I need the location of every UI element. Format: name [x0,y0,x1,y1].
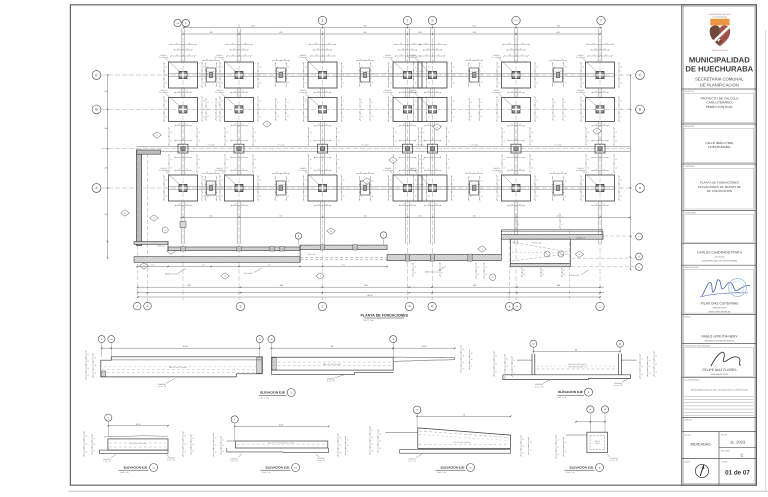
footing C2 [225,62,254,88]
svg-text:MURO H.A.: MURO H.A. [570,274,580,277]
small footing M4 [403,144,413,153]
title block outer box [682,5,757,485]
elevation b bubbles [587,406,594,413]
bubble row C right [636,71,645,80]
eje1B tail wedge [393,357,455,361]
elevation eje1 A bubbles [98,336,105,343]
svg-text:LAMINA: LAMINA [721,460,728,463]
svg-text:Z-1 120x120: Z-1 120x120 [383,91,393,94]
title block divider 9 [682,377,757,379]
grid axis vertical 3 [322,24,324,300]
footing C6 [502,62,531,88]
svg-text:Z-1 120x120: Z-1 120x120 [215,169,225,172]
svg-text:870: 870 [342,264,345,267]
svg-text:10.35: 10.35 [136,423,141,426]
wall pilaster [237,247,241,251]
column strip axis 5 [430,29,432,63]
bubble wall d right [636,253,643,260]
dashed leaders to right bubbles [604,235,635,237]
svg-text:ESC 1 : 50: ESC 1 : 50 [260,397,269,400]
svg-text:Z-1 120x120: Z-1 120x120 [215,91,225,94]
svg-text:INDICADAS: INDICADAS [690,443,711,447]
svg-text:MURO h=t m.h.a.: MURO h=t m.h.a. [425,271,440,274]
svg-text:ESC 1 : 50: ESC 1 : 50 [558,396,567,399]
bottom footing band left (hatched) [134,257,300,263]
small footing M3 [318,144,328,153]
beam row A [168,185,614,187]
svg-text:310: 310 [151,264,154,267]
footing A4 [393,175,422,201]
row gap tick clusters [303,63,305,87]
top mini dim cluster [503,44,529,46]
plan bottom dim chain 3 (overall) [138,296,600,298]
e2 clusters [213,434,215,456]
e2 ground line left [227,440,236,442]
bubble axis 1a top [174,19,181,26]
wall marker diamond 6 [121,210,130,216]
small footing row C intermediate [276,68,285,82]
column strip axis 3 [320,29,322,63]
column strip axis 7 [597,29,599,63]
grid axis vertical 2 [238,24,240,300]
svg-text:RELLENO COMP. 2.5: RELLENO COMP. 2.5 [569,366,587,369]
elevation 7a bubble [413,406,421,414]
svg-text:V.F. 20/40: V.F. 20/40 [470,144,478,147]
svg-text:10: 10 [463,413,465,416]
footing B7 [586,97,615,121]
svg-text:ELEVACION EJE: ELEVACION EJE [266,466,290,470]
7a base plate [400,450,511,454]
pit below tick clusters [521,269,523,277]
svg-text:e 1 m - 70: e 1 m - 70 [535,385,543,388]
small footing row A intermediate [207,181,216,195]
svg-text:PRO SAN CLAUDIO: PRO SAN CLAUDIO [712,49,728,52]
top mini dim cluster [170,44,196,46]
svg-text:Z-1 120x120: Z-1 120x120 [492,169,502,172]
svg-text:PEND. 10%: PEND. 10% [532,242,542,245]
bubble axis 4 top [512,16,520,24]
bubble wall e right [636,264,643,271]
row gap tick clusters [388,63,390,87]
bubble axis w2 bottom [144,302,152,310]
footing B3 [308,97,337,121]
svg-text:INGENIERO CIVIL: INGENIERO CIVIL [711,373,729,376]
svg-text:DE CONTENCION: DE CONTENCION [707,189,732,193]
inter-row mini chains [400,92,416,94]
grid axis vertical 1 [182,24,184,300]
svg-text:ESC 1 : 50: ESC 1 : 50 [437,471,445,474]
grid line row M [101,148,632,150]
title block divider 5 [682,243,757,245]
inter-row mini chains [425,92,441,94]
bubble row B left [92,105,101,114]
eje1A end slivers [101,371,106,377]
retaining wall left vertical band [137,150,142,246]
wall marker diamond 13 [327,228,336,234]
footing A5 [418,175,447,201]
svg-text:10.35: 10.35 [279,423,284,426]
svg-text:ELEVACION EJE: ELEVACION EJE [558,390,583,394]
footing B2 [225,97,254,121]
title block divider 6 [682,264,757,266]
svg-text:e 1 m - 70: e 1 m - 70 [317,459,325,462]
svg-text:395: 395 [105,166,108,169]
paper bottom edge [68,490,768,492]
svg-text:DIRECTORA SECPLAN: DIRECTORA SECPLAN [708,310,731,313]
small footing row A intermediate [554,181,563,195]
title block divider 10 [682,417,757,419]
circle marker F near chain [490,274,496,280]
right dimension chain [630,75,632,269]
svg-text:e 1 m - 70: e 1 m - 70 [103,460,111,463]
bubble axis 2 bottom [318,302,326,310]
elevation e2 body [236,441,328,448]
wall marker diamond 12 [150,215,159,221]
small footing row A intermediate [470,181,479,195]
eje1B bottom plate [272,370,394,374]
e1 bubble [105,414,112,421]
bubble row B right [636,105,645,114]
svg-text:Z-1 120x120: Z-1 120x120 [492,56,502,59]
svg-text:SELLO 1:10 TN MAX: SELLO 1:10 TN MAX [453,441,471,444]
svg-text:SELLO 1:10 TN MAX RELL COMP: SELLO 1:10 TN MAX RELL COMP [268,442,295,445]
wall marker diamond 11 [478,246,487,252]
svg-text:REVISION: REVISION [721,449,730,452]
column strip axis 1 [180,29,182,63]
eje3 base plate [503,375,631,380]
wall axis dashed 1b [147,154,149,305]
footing C3 [308,62,337,88]
wall marker diamond 10 [316,273,325,279]
svg-text:ARQUITECTO: ARQUITECTO [713,306,727,309]
bubble wall c right [636,233,643,240]
eje1 top dim chain [102,347,260,349]
svg-text:MUNICIPALIDAD: MUNICIPALIDAD [689,56,750,65]
svg-text:e 1 m - 70: e 1 m - 70 [614,384,622,387]
pit box [510,239,570,263]
svg-text:V.F. 20/40: V.F. 20/40 [416,144,424,147]
svg-text:390: 390 [105,127,108,130]
footing C4 [393,62,422,88]
clusters above pit [515,214,517,228]
bottom wall band: bump segment [300,245,387,250]
svg-text:e 1 m - 70: e 1 m - 70 [408,460,416,463]
svg-text:CONTENIDO: CONTENIDO [684,165,695,168]
wall step at x=168 [167,242,169,251]
top mini dim cluster [226,44,252,46]
svg-text:V.F. 20/40: V.F. 20/40 [207,70,215,73]
bubble axis 2 top [318,16,326,24]
title block divider 4 [682,209,757,211]
footing A6 [502,175,531,201]
row gap tick clusters [496,63,498,87]
svg-text:COLABORADORA: COLABORADORA [684,379,700,382]
svg-text:SELLO 1:10 TN MAX: SELLO 1:10 TN MAX [130,442,147,445]
svg-text:ESC 1 : 50: ESC 1 : 50 [566,471,574,474]
svg-text:150: 150 [419,214,422,217]
svg-text:SECRETARIA COMUNAL: SECRETARIA COMUNAL [695,77,744,82]
bubble axis 4a bottom [506,302,514,310]
svg-text:Z-1 120x120: Z-1 120x120 [159,56,169,59]
elevation 7a body (wedge) [418,428,511,449]
svg-text:V.F. 20/40: V.F. 20/40 [207,144,215,147]
pit step vertical at x=501 [500,230,502,255]
svg-text:Z-1 120x120: Z-1 120x120 [298,91,308,94]
svg-text:V.F. 20/40: V.F. 20/40 [554,183,562,186]
svg-text:Z-1 120x120: Z-1 120x120 [383,56,393,59]
top mini dim cluster [395,44,421,46]
elevation eje1 A end clusters [85,351,87,379]
wall step at x=300 [299,245,301,262]
wall marker diamond 9 [221,273,230,279]
wall pilaster [353,245,357,250]
svg-text:ESC 1 : 50: ESC 1 : 50 [120,471,128,474]
svg-text:NORTE: NORTE [684,460,691,463]
svg-text:V.F. 20/40: V.F. 20/40 [416,183,424,186]
elevation eje3 bubbles [530,340,537,347]
e1 clusters [83,432,85,456]
svg-text:Z-1 120x120: Z-1 120x120 [298,56,308,59]
title block divider 2 [682,123,757,125]
wall pilaster [430,254,434,261]
svg-text:Z-1 120x120: Z-1 120x120 [576,169,586,172]
mid small dims [466,60,482,62]
bubble axis w1 bottom [133,302,141,310]
svg-text:01 de 07: 01 de 07 [725,470,750,477]
stamp circle (light blue) [729,279,747,297]
svg-text:435: 435 [473,31,476,34]
mid dim chain y=217.4 [180,216,630,218]
svg-text:FECHA: FECHA [721,433,728,436]
elevation eje3 right post [618,354,620,375]
wall pilaster [468,254,472,261]
svg-text:PABLO URRUTIA NERY: PABLO URRUTIA NERY [701,335,738,339]
svg-text:V.F. 20/40: V.F. 20/40 [277,183,285,186]
grid axis vertical 4 [407,24,409,300]
svg-text:H=20: H=20 [595,442,599,445]
footing B6 [502,97,531,121]
wall axis dashed 1 [137,150,139,299]
bubble axis 4b bottom [513,302,521,310]
svg-text:V.F. 20/40: V.F. 20/40 [207,183,215,186]
leader note [581,270,589,275]
small footing row C intermediate [207,68,216,82]
svg-text:V.F. 20/40: V.F. 20/40 [277,70,285,73]
top dimension chain 2 [184,33,601,35]
svg-text:150: 150 [279,214,282,217]
svg-text:V.F. 20x40: V.F. 20x40 [244,272,252,275]
svg-text:150: 150 [473,214,476,217]
wall pilaster [181,247,185,251]
wall pilaster [280,247,284,251]
title block divider 3 [682,163,757,165]
svg-text:150: 150 [557,214,560,217]
svg-text:V.F. 20/40: V.F. 20/40 [277,144,285,147]
svg-text:ELEVACION EJE: ELEVACION EJE [124,466,148,470]
elevation 7a clusters [369,427,371,454]
mid small dims [550,60,566,62]
elevation b clusters [555,436,557,458]
elevation eje1 part A bar [101,357,262,377]
svg-text:V.F. 20/40: V.F. 20/40 [470,70,478,73]
bubble axis 3a bottom [428,302,436,310]
municipality logo: heart right lobe (brick red) [720,25,730,46]
bottom table [718,432,720,486]
pit upper thin wall lines [501,229,603,231]
circle marker near wall [162,227,168,233]
svg-text:e 1 m - 70: e 1 m - 70 [167,459,175,462]
eje3 fill dashed [537,368,618,370]
retaining wall left top stub [137,150,161,154]
svg-text:B: B [639,108,641,112]
top dimension chain 1 [184,27,601,29]
signature pilar (blue) [702,280,750,296]
elevation e1 body [108,439,168,450]
eje3 ground lines [517,359,532,361]
mid small dims [357,60,373,62]
grid line row B [101,108,632,110]
small footing M7 [595,144,605,153]
left dimension chain [107,75,109,258]
grid axis vertical 5 [432,24,434,300]
grid line row C [101,74,632,76]
svg-text:PROYECTO: PROYECTO [684,90,695,93]
svg-text:PLANTA DE FUNDACIONES: PLANTA DE FUNDACIONES [361,314,409,318]
svg-text:435: 435 [279,31,282,34]
wall pilaster [270,247,274,251]
svg-text:V.F. 20/40: V.F. 20/40 [470,183,478,186]
bubble row A left [92,184,101,193]
bubble row C left [92,71,101,80]
footing A1 [169,175,198,201]
footing C5 [418,62,447,88]
footing B5 [418,97,447,121]
small footing row A intermediate [361,181,370,195]
svg-text:ELEVACION EJE: ELEVACION EJE [260,391,285,395]
svg-text:ARQUITECTO PATROCINANTE: ARQUITECTO PATROCINANTE [704,340,735,343]
column strip axis 4 [405,29,407,63]
bubble axis 3a top [428,16,436,24]
svg-text:CARLOS CUADRADO PRATS: CARLOS CUADRADO PRATS [697,251,743,255]
svg-text:Z-1 120x120: Z-1 120x120 [576,56,586,59]
signature felipe [711,352,741,366]
mid small dims [273,60,289,62]
svg-text:FIRMA SECPLAN: FIRMA SECPLAN [684,266,699,269]
svg-text:UBICACION: UBICACION [684,125,695,128]
svg-text:V.F. 20/40: V.F. 20/40 [554,144,562,147]
small footing row A intermediate [276,181,285,195]
svg-text:SELLO 1:10 TN MAX: SELLO 1:10 TN MAX [169,366,188,369]
pit diamond [575,251,584,257]
svg-text:V.F. 20/40: V.F. 20/40 [554,70,562,73]
top mini dim cluster [587,44,613,46]
footing A2 [225,175,254,201]
bubble axis 1 top [182,19,189,26]
e2 base plate [227,448,329,452]
elevation b arm line [566,434,587,436]
svg-text:Z-1 120x120: Z-1 120x120 [576,91,586,94]
wall marker diamond 5 [593,128,602,134]
svg-text:435: 435 [209,31,212,34]
svg-text:150: 150 [210,214,213,217]
top mini dim cluster [310,44,336,46]
svg-text:C: C [741,453,744,458]
svg-text:PEDRO FONTOVA.: PEDRO FONTOVA. [706,105,734,109]
bubble row A right [636,184,645,193]
inter-row mini chains [315,92,331,94]
svg-text:Z-1 120x120: Z-1 120x120 [383,169,393,172]
footing C1 [169,62,198,88]
svg-text:435: 435 [556,31,559,34]
bottom wall band: corner high segment [134,242,168,245]
title block divider 8 [682,343,757,345]
footing A3 [308,175,337,201]
municipality logo: white figure detail [718,39,723,42]
bottom wall band: left wall strip [168,247,300,251]
svg-text:Z-1 120x120: Z-1 120x120 [159,91,169,94]
svg-text:B: B [95,108,97,112]
wall dim chain y=266.5 [137,266,387,268]
svg-text:ELEVACION EJE: ELEVACION EJE [441,466,465,470]
municipality logo: white diagonal stripe [711,27,729,44]
bubble axis 5 top [597,16,605,24]
bubble axis 1 bottom [236,302,244,310]
svg-text:DE PLANIFICACIÓN: DE PLANIFICACIÓN [700,82,739,87]
7a inner dashes [419,431,509,438]
wall marker diamond 14 [389,157,398,163]
inter-row mini chains [231,92,247,94]
svg-text:e 1 m - 70: e 1 m - 70 [610,459,618,462]
svg-text:150: 150 [364,214,367,217]
eje1A top slab strip [111,359,262,361]
svg-text:ESC 1 : 50: ESC 1 : 50 [364,319,375,322]
small footing M2 [234,144,244,153]
column strip axis 6 [513,29,515,63]
svg-text:710: 710 [202,264,205,267]
wall marker diamond 4 [433,124,442,130]
svg-text:11. 2023: 11. 2023 [730,440,746,445]
row gap tick clusters [219,63,221,87]
svg-text:REVISO: REVISO [684,316,691,319]
small footing row C intermediate [361,68,370,82]
bubble axis 3 top [403,16,411,24]
svg-text:SELLO 1:10 TN MAX: SELLO 1:10 TN MAX [569,363,588,366]
top mini dim cluster [420,44,446,46]
inter-row mini chains [508,92,524,94]
plan bottom dim chain 1 [138,286,604,288]
grid axis vertical 7 [599,24,601,300]
pit inner ramp dashes [512,242,568,252]
svg-text:Z-1 120x120: Z-1 120x120 [215,56,225,59]
svg-text:Z-1 120x120: Z-1 120x120 [492,91,502,94]
bubble axis 5 bottom [596,302,604,310]
inter-row mini chains [175,92,191,94]
grid axis vertical 6 [515,24,517,300]
mid small dims [203,60,219,62]
svg-text:e 1 m - 70: e 1 m - 70 [230,460,238,463]
footing B1 [169,97,198,121]
svg-text:SELLO 1:10 TN MAX: SELLO 1:10 TN MAX [323,363,342,366]
small footing M1 [178,144,188,153]
eje1B tail end clusters [460,346,462,372]
svg-text:PROFESIONAL RESPONSABLE: PROFESIONAL RESPONSABLE [684,345,711,348]
bubble axis 3 bottom [405,302,413,310]
svg-text:535: 535 [105,213,108,216]
beam row M [137,146,631,148]
row gap tick clusters [413,63,415,87]
svg-text:V.F. 20/40: V.F. 20/40 [361,144,369,147]
svg-text:ARCHIVO: ARCHIVO [684,419,693,422]
